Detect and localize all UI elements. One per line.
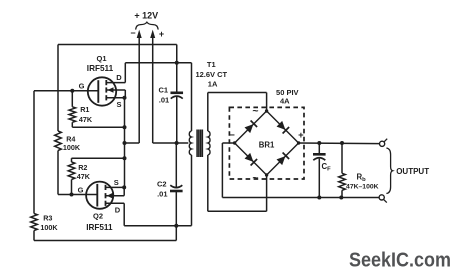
- svg-text:47K–100K: 47K–100K: [346, 183, 379, 190]
- svg-text:~: ~: [252, 105, 258, 117]
- svg-text:+: +: [159, 29, 164, 39]
- svg-text:R1: R1: [80, 105, 89, 114]
- svg-text:G: G: [79, 82, 85, 91]
- svg-text:OUTPUT: OUTPUT: [396, 167, 429, 176]
- svg-text:SeekIC.com: SeekIC.com: [349, 249, 451, 272]
- svg-text:.01: .01: [159, 95, 169, 104]
- svg-text:.01: .01: [157, 189, 167, 198]
- svg-text:G: G: [78, 186, 84, 195]
- svg-text:100K: 100K: [63, 143, 81, 152]
- svg-text:S: S: [114, 178, 119, 187]
- svg-text:+ 12V: + 12V: [134, 11, 158, 21]
- svg-text:47K: 47K: [77, 172, 91, 181]
- svg-text:47K: 47K: [79, 115, 93, 124]
- svg-text:R2: R2: [78, 163, 87, 172]
- svg-text:100K: 100K: [40, 223, 58, 232]
- svg-text:IRF511: IRF511: [87, 64, 114, 73]
- svg-text:D: D: [115, 206, 121, 215]
- svg-text:S: S: [116, 100, 121, 109]
- svg-text:C1: C1: [159, 86, 169, 95]
- svg-text:Q1: Q1: [96, 54, 106, 63]
- svg-text:−: −: [229, 130, 235, 141]
- svg-text:BR1: BR1: [259, 141, 275, 150]
- svg-text:−: −: [130, 28, 135, 38]
- svg-text:~: ~: [252, 172, 258, 184]
- svg-text:1A: 1A: [208, 79, 218, 88]
- svg-text:12.6V CT: 12.6V CT: [195, 70, 227, 79]
- svg-text:C2: C2: [157, 180, 167, 189]
- svg-text:+: +: [298, 130, 304, 141]
- svg-text:D: D: [116, 73, 122, 82]
- svg-text:T1: T1: [207, 60, 216, 69]
- svg-text:Q2: Q2: [93, 212, 103, 221]
- svg-text:4A: 4A: [280, 97, 290, 106]
- svg-text:R3: R3: [43, 213, 52, 222]
- svg-text:IRF511: IRF511: [86, 223, 113, 232]
